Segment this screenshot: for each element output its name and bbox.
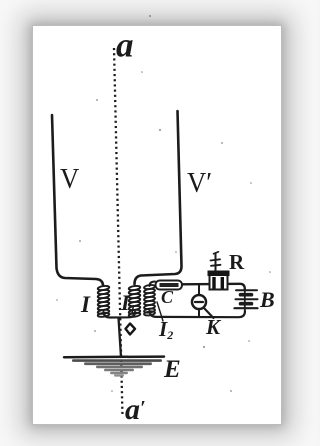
svg-text:R: R xyxy=(229,250,245,274)
svg-text:I2: I2 xyxy=(158,317,173,342)
svg-text:I: I xyxy=(80,292,91,317)
svg-text:a′: a′ xyxy=(125,393,146,426)
svg-text:C: C xyxy=(161,287,174,307)
svg-text:K: K xyxy=(205,315,222,339)
svg-text:a: a xyxy=(116,26,134,65)
svg-text:V′: V′ xyxy=(187,167,212,199)
svg-text:V: V xyxy=(60,163,79,195)
svg-text:E: E xyxy=(163,356,181,383)
svg-text:B: B xyxy=(259,287,275,312)
